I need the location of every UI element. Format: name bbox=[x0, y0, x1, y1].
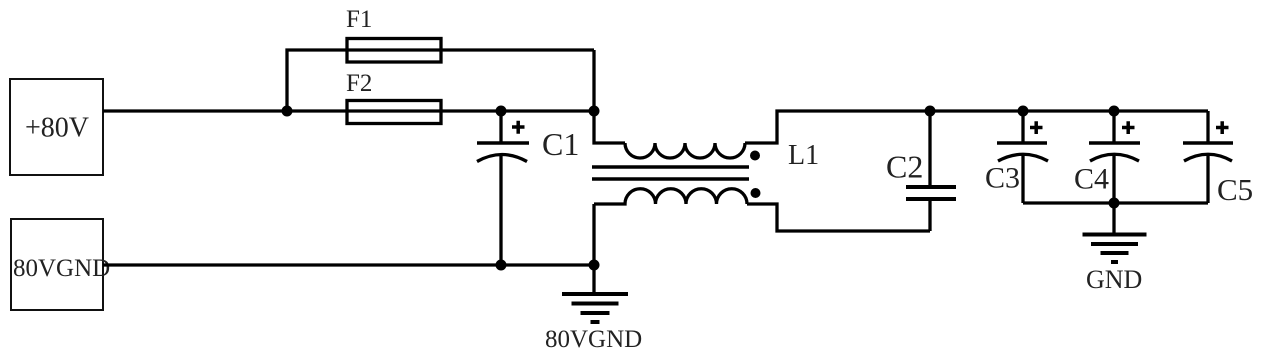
wire transformer left vertical + top lead bbox=[594, 50, 625, 143]
phase dot top bbox=[750, 151, 760, 161]
fuse F2 bbox=[347, 101, 441, 124]
svg-text:L1: L1 bbox=[788, 140, 819, 171]
svg-text:C1: C1 bbox=[542, 126, 579, 162]
svg-text:80VGND: 80VGND bbox=[545, 326, 642, 353]
svg-text:C4: C4 bbox=[1074, 163, 1109, 196]
node junction at bottom rail / ground bbox=[589, 260, 600, 271]
ground 80VGND bbox=[562, 292, 628, 296]
wire bottom rail from 80VGND box bbox=[103, 263, 594, 266]
capacitor C2 bbox=[928, 111, 931, 187]
svg-text:F2: F2 bbox=[346, 70, 372, 97]
capacitor C3 bbox=[1021, 111, 1024, 143]
svg-text:F1: F1 bbox=[346, 6, 372, 33]
svg-text:+80V: +80V bbox=[25, 113, 89, 144]
capacitor C5 bbox=[1206, 111, 1209, 143]
node junction left bbox=[282, 106, 293, 117]
wire bottom rail C3-C5 bbox=[1023, 201, 1208, 204]
wire top rail from +80V box through F2 to transformer bbox=[103, 109, 594, 112]
wire top output lead bbox=[745, 111, 1208, 143]
node junction at C4 bottom bbox=[1109, 198, 1120, 209]
node junction at C1 top bbox=[496, 106, 507, 117]
node junction at C4 top bbox=[1109, 106, 1120, 117]
node junction at C2 top bbox=[925, 106, 936, 117]
wire transformer bottom-left vertical bbox=[592, 204, 595, 292]
svg-text:80VGND: 80VGND bbox=[13, 255, 110, 282]
wire GND stub bbox=[1112, 203, 1115, 233]
node junction at C1 bottom bbox=[496, 260, 507, 271]
ground GND bbox=[1083, 233, 1147, 237]
transformer L1 top winding bbox=[625, 143, 745, 158]
fuse F1 bbox=[347, 39, 441, 63]
wire bottom output lead to C2 bbox=[747, 204, 930, 231]
node +80V box bbox=[10, 79, 103, 175]
node 80VGND box bbox=[11, 219, 103, 310]
svg-text:C5: C5 bbox=[1217, 172, 1253, 207]
transformer L1 bottom winding bbox=[594, 189, 747, 204]
wire F1 bypass branch bbox=[287, 50, 594, 111]
svg-text:C2: C2 bbox=[886, 149, 923, 185]
node junction at C3 top bbox=[1018, 106, 1029, 117]
capacitor C4 bbox=[1112, 111, 1115, 143]
capacitor C1 bbox=[499, 111, 502, 143]
node junction at transformer top-left bbox=[589, 106, 600, 117]
phase dot bottom bbox=[751, 188, 761, 198]
svg-text:C3: C3 bbox=[985, 162, 1020, 195]
svg-text:GND: GND bbox=[1086, 265, 1142, 294]
transformer core bbox=[592, 167, 749, 179]
